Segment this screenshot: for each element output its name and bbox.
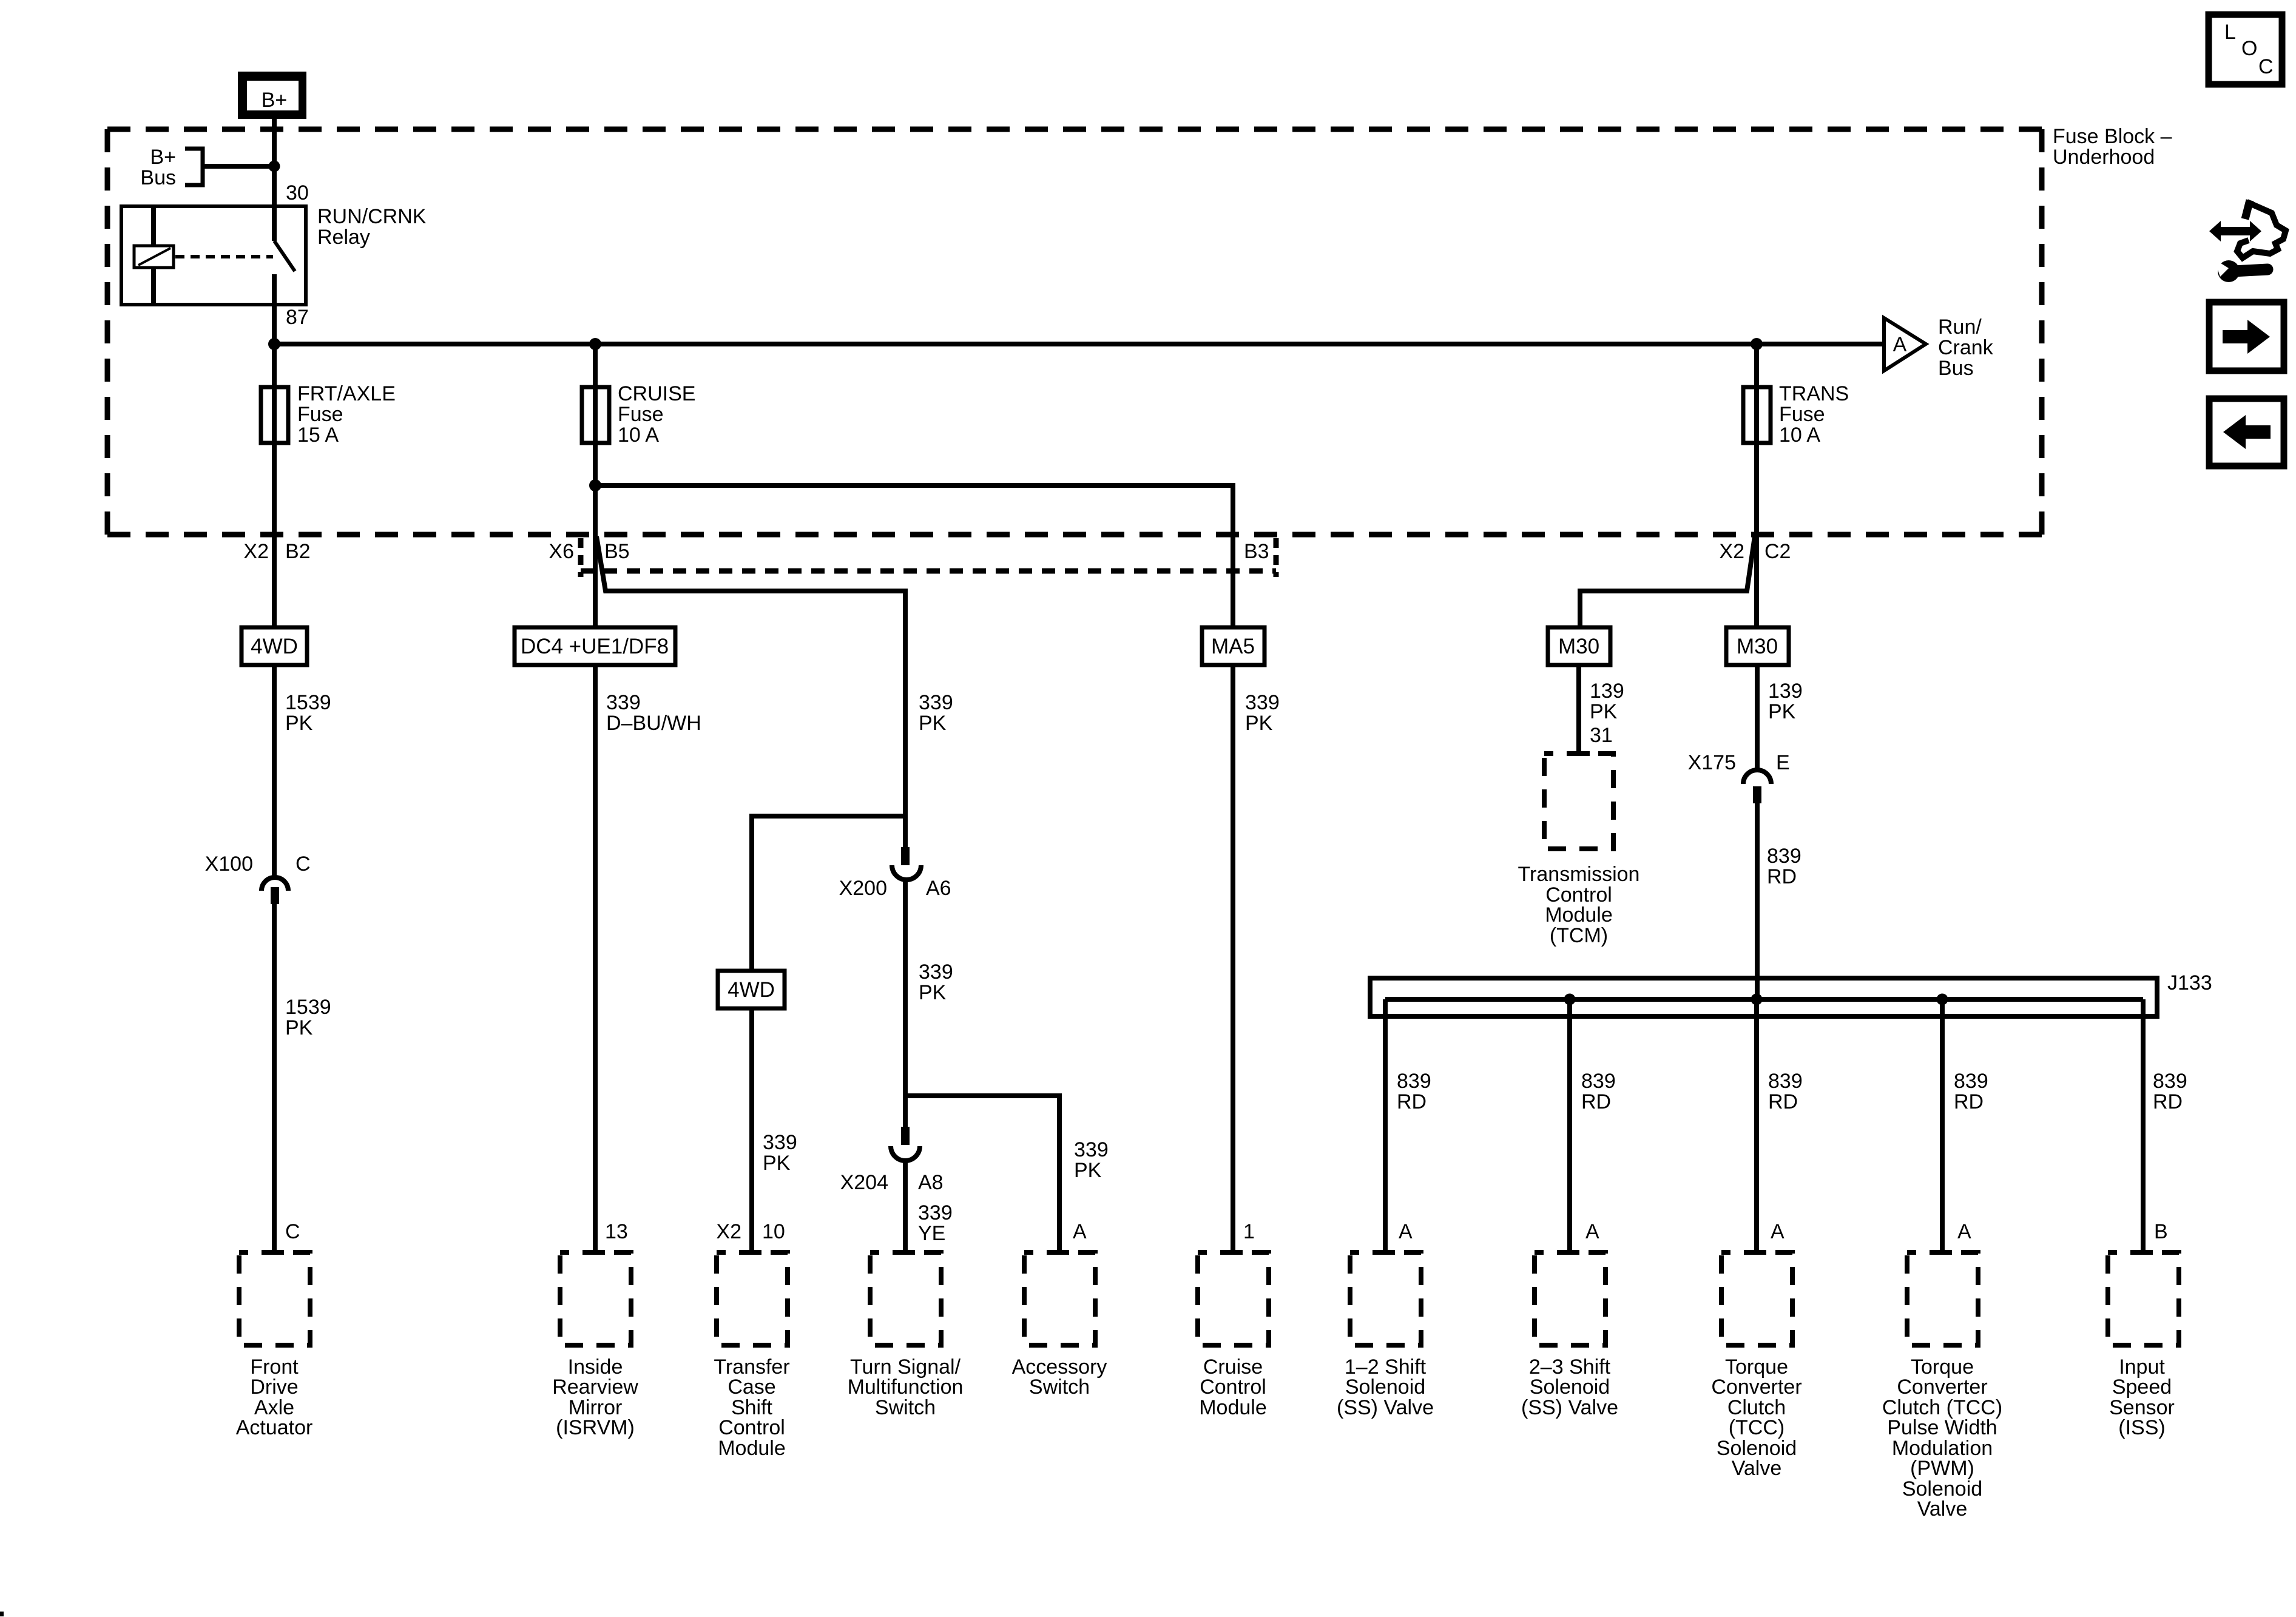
svg-text:TRANS: TRANS	[1779, 382, 1849, 405]
svg-text:Solenoid: Solenoid	[1345, 1376, 1425, 1399]
svg-text:PK: PK	[763, 1152, 791, 1175]
svg-text:MA5: MA5	[1211, 635, 1255, 658]
svg-text:X200: X200	[839, 877, 887, 900]
svg-text:A: A	[1957, 1220, 1971, 1243]
svg-text:339: 339	[918, 1201, 953, 1224]
svg-text:L: L	[2224, 21, 2236, 44]
svg-text:B+: B+	[150, 146, 176, 169]
svg-text:87: 87	[286, 306, 309, 329]
svg-text:Module: Module	[718, 1437, 786, 1460]
svg-text:(SS) Valve: (SS) Valve	[1337, 1396, 1434, 1419]
svg-text:PK: PK	[285, 1016, 313, 1039]
svg-text:C2: C2	[1764, 540, 1791, 563]
svg-text:1539: 1539	[285, 691, 331, 714]
svg-text:PK: PK	[1245, 712, 1273, 735]
svg-text:10 A: 10 A	[1779, 424, 1820, 447]
svg-text:RUN/CRNK: RUN/CRNK	[317, 205, 427, 228]
svg-text:YE: YE	[918, 1222, 945, 1245]
svg-text:X2: X2	[1719, 540, 1744, 563]
svg-text:B2: B2	[285, 540, 311, 563]
svg-text:B: B	[2154, 1220, 2168, 1243]
svg-text:RD: RD	[1581, 1090, 1611, 1113]
svg-text:Valve: Valve	[1917, 1497, 1968, 1521]
svg-text:B3: B3	[1244, 540, 1269, 563]
svg-text:PK: PK	[919, 981, 947, 1004]
svg-text:FRT/AXLE: FRT/AXLE	[297, 382, 396, 405]
svg-text:Multifunction: Multifunction	[848, 1376, 964, 1399]
svg-text:30: 30	[286, 181, 309, 204]
svg-text:M30: M30	[1558, 635, 1599, 658]
svg-text:Rearview: Rearview	[552, 1376, 638, 1399]
svg-text:(TCM): (TCM)	[1550, 924, 1608, 947]
svg-text:A8: A8	[918, 1171, 944, 1194]
svg-text:Module: Module	[1199, 1396, 1267, 1419]
svg-text:(PWM): (PWM)	[1910, 1457, 1974, 1480]
svg-text:839: 839	[1767, 845, 1801, 868]
svg-text:X175: X175	[1688, 751, 1736, 774]
svg-text:4WD: 4WD	[251, 635, 298, 658]
svg-text:10 A: 10 A	[618, 424, 659, 447]
svg-text:1539: 1539	[285, 996, 331, 1019]
svg-text:339: 339	[763, 1131, 797, 1154]
svg-text:1: 1	[1243, 1220, 1255, 1243]
svg-text:Crank: Crank	[1938, 336, 1994, 359]
svg-text:PK: PK	[1074, 1159, 1102, 1182]
svg-text:RD: RD	[1768, 1090, 1798, 1113]
svg-text:C: C	[285, 1220, 300, 1243]
svg-text:DC4 +UE1/DF8: DC4 +UE1/DF8	[521, 635, 669, 658]
svg-text:Drive: Drive	[250, 1376, 298, 1399]
svg-text:Solenoid: Solenoid	[1530, 1376, 1610, 1399]
svg-text:(ISRVM): (ISRVM)	[556, 1416, 635, 1439]
svg-text:Converter: Converter	[1711, 1376, 1801, 1399]
svg-text:(SS) Valve: (SS) Valve	[1521, 1396, 1618, 1419]
svg-text:X100: X100	[205, 852, 253, 876]
svg-text:Relay: Relay	[317, 226, 370, 249]
svg-text:139: 139	[1768, 680, 1803, 703]
svg-text:J133: J133	[2167, 971, 2212, 994]
svg-text:PK: PK	[1590, 700, 1618, 723]
svg-text:A: A	[1073, 1220, 1087, 1243]
svg-text:PK: PK	[919, 712, 947, 735]
svg-text:C: C	[2258, 55, 2274, 78]
svg-text:Underhood: Underhood	[2053, 146, 2155, 169]
svg-text:Bus: Bus	[140, 166, 176, 189]
svg-text:Transmission: Transmission	[1518, 863, 1640, 886]
svg-text:X2: X2	[716, 1220, 741, 1243]
svg-text:10: 10	[762, 1220, 785, 1243]
svg-text:RD: RD	[1954, 1090, 1984, 1113]
svg-text:X2: X2	[243, 540, 269, 563]
svg-text:Fuse: Fuse	[618, 403, 664, 426]
svg-text:Fuse: Fuse	[1779, 403, 1825, 426]
svg-text:Control: Control	[718, 1416, 785, 1439]
svg-text:839: 839	[1397, 1070, 1431, 1093]
svg-text:(TCC): (TCC)	[1729, 1416, 1785, 1439]
svg-text:O: O	[2241, 37, 2257, 60]
svg-text:Case: Case	[728, 1376, 775, 1399]
svg-text:339: 339	[606, 691, 641, 714]
svg-text:339: 339	[1074, 1138, 1109, 1161]
svg-text:339: 339	[1245, 691, 1280, 714]
svg-text:Valve: Valve	[1732, 1457, 1782, 1480]
svg-text:13: 13	[605, 1220, 628, 1243]
svg-text:839: 839	[1768, 1070, 1803, 1093]
svg-text:Switch: Switch	[1029, 1376, 1090, 1399]
svg-text:839: 839	[1954, 1070, 1988, 1093]
svg-text:RD: RD	[1397, 1090, 1427, 1113]
svg-text:139: 139	[1590, 680, 1624, 703]
svg-text:PK: PK	[285, 712, 313, 735]
svg-text:A6: A6	[926, 877, 951, 900]
svg-text:A: A	[1893, 333, 1907, 356]
svg-text:31: 31	[1590, 724, 1613, 747]
svg-text:4WD: 4WD	[728, 978, 775, 1002]
svg-text:A: A	[1771, 1220, 1784, 1243]
svg-text:D–BU/WH: D–BU/WH	[606, 712, 701, 735]
svg-text:839: 839	[1581, 1070, 1616, 1093]
svg-text:B+: B+	[262, 89, 288, 112]
svg-text:Run/: Run/	[1938, 316, 1982, 339]
svg-text:339: 339	[919, 960, 953, 984]
svg-text:Fuse Block –: Fuse Block –	[2053, 125, 2172, 148]
svg-text:Converter: Converter	[1897, 1376, 1987, 1399]
svg-text:Bus: Bus	[1938, 357, 1974, 380]
svg-text:E: E	[1776, 751, 1790, 774]
svg-text:B5: B5	[604, 540, 630, 563]
svg-text:X6: X6	[549, 540, 574, 563]
svg-text:C: C	[295, 852, 311, 876]
svg-text:M30: M30	[1737, 635, 1778, 658]
svg-text:Pulse Width: Pulse Width	[1887, 1416, 1997, 1439]
svg-text:(ISS): (ISS)	[2118, 1416, 2165, 1439]
svg-text:Fuse: Fuse	[297, 403, 343, 426]
svg-text:Switch: Switch	[875, 1396, 936, 1419]
svg-text:X204: X204	[840, 1171, 888, 1194]
svg-text:Speed: Speed	[2112, 1376, 2172, 1399]
svg-text:Module: Module	[1545, 903, 1613, 927]
svg-text:CRUISE: CRUISE	[618, 382, 695, 405]
svg-text:839: 839	[2153, 1070, 2187, 1093]
svg-text:Control: Control	[1200, 1376, 1266, 1399]
svg-text:RD: RD	[2153, 1090, 2183, 1113]
svg-text:339: 339	[919, 691, 953, 714]
svg-text:RD: RD	[1767, 865, 1797, 888]
svg-text:A: A	[1585, 1220, 1599, 1243]
svg-text:Actuator: Actuator	[236, 1416, 313, 1439]
svg-text:15 A: 15 A	[297, 424, 339, 447]
svg-text:PK: PK	[1768, 700, 1796, 723]
svg-text:A: A	[1399, 1220, 1413, 1243]
